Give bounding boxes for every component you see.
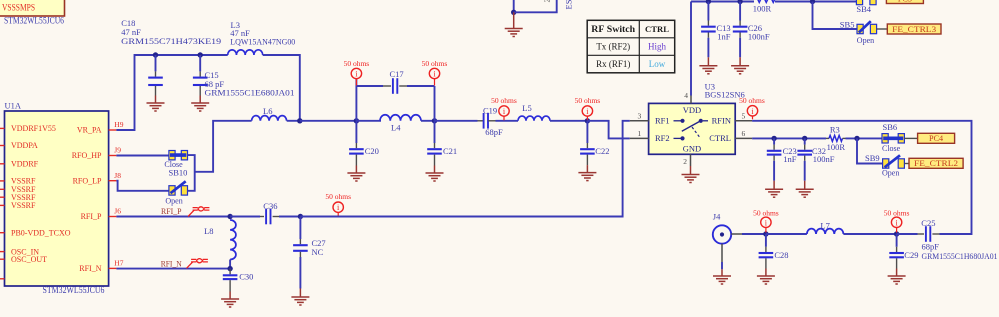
svg-text:NC: NC [312, 247, 324, 257]
C19 left lead [478, 120, 484, 122]
svg-text:Close: Close [882, 144, 901, 153]
U1A left pin stub y=128.4 [0, 127, 5, 129]
wire VDD rail left [691, 1, 754, 3]
svg-text:1nF: 1nF [717, 32, 731, 42]
U3 switch contact RFIN [699, 119, 703, 123]
capacitor C32 [804, 138, 806, 144]
svg-text:J9: J9 [114, 146, 121, 155]
svg-text:RFIN: RFIN [712, 116, 731, 126]
wire SB10 to L6 [195, 121, 252, 172]
wire RFI_P to C36 [230, 216, 260, 218]
svg-text:VSSRF: VSSRF [11, 201, 36, 210]
wire C21 node to C19 [435, 120, 478, 122]
svg-text:50 ohms: 50 ohms [422, 59, 448, 68]
svg-text:50 ohms: 50 ohms [753, 208, 779, 217]
svg-text:C20: C20 [365, 146, 379, 156]
C36 left lead [260, 216, 264, 218]
junction SB5 branch [810, 0, 815, 4]
wire R3 to SB6 [846, 137, 883, 139]
svg-text:GRM155C71H473KE19: GRM155C71H473KE19 [121, 36, 221, 46]
inductor L6 [252, 116, 287, 121]
svg-text:RFI_N: RFI_N [161, 258, 182, 268]
svg-text:100R: 100R [827, 142, 846, 152]
U1A pin stub H7 [109, 267, 117, 269]
ic U1A body [5, 111, 109, 286]
wire C17 branch right [407, 85, 435, 87]
wire C36 to C27 node [279, 216, 300, 218]
inductor L5 [518, 116, 550, 121]
U3 pin 4 stub [690, 96, 692, 104]
impedance marker 50 ohms (C29) [896, 227, 898, 232]
capacitor C22 [586, 121, 588, 143]
SB10 open lever [171, 181, 186, 193]
ic U3 body [649, 103, 736, 154]
svg-text:GRM1555C1E680JA01: GRM1555C1E680JA01 [205, 87, 295, 97]
capacitor C29 [896, 234, 898, 247]
capacitor C19 [484, 113, 488, 129]
junction TX node [297, 118, 302, 123]
U3 pin 3 stub [630, 120, 649, 122]
U3 switch contact RF1 [674, 120, 681, 122]
junction C30 node [227, 266, 232, 271]
wire C17 left riser [355, 78, 357, 121]
inductor L4 [380, 115, 421, 121]
solder bridge SB10 closed pads [169, 151, 175, 160]
svg-text:L7: L7 [820, 220, 829, 230]
svg-text:L4: L4 [391, 123, 401, 133]
U1A left pin stub y=232.7 [0, 232, 5, 234]
capacitor C21 [434, 121, 436, 143]
svg-text:J4: J4 [713, 211, 721, 221]
wire C20 node to L4 [356, 120, 381, 122]
svg-text:VSSSMPS: VSSSMPS [2, 4, 35, 14]
svg-text:SB10: SB10 [169, 167, 188, 177]
wire C17 branch left [356, 85, 383, 87]
capacitor C36 [266, 209, 270, 225]
wire SB9 drop [857, 138, 883, 163]
wire J4 to C28 node [742, 233, 766, 235]
solder bridge SB4 pads [856, 0, 862, 5]
SB9 open lever [885, 155, 900, 167]
svg-text:J6: J6 [114, 207, 121, 216]
wire VR_PA to top rail [116, 55, 155, 130]
differential pair mark (RFI_N) [187, 259, 208, 269]
svg-text:4: 4 [684, 91, 688, 100]
J4 right lead [731, 233, 742, 235]
C17 right lead [399, 85, 407, 87]
svg-text:STM32WL55JCU6: STM32WL55JCU6 [43, 285, 105, 295]
SB5 open lever [859, 21, 871, 32]
U1A pin stub J8 [109, 180, 117, 182]
impedance marker 50 ohms (C22 node) [586, 116, 588, 120]
capacitor C27 [299, 217, 301, 240]
svg-text:L5: L5 [522, 103, 531, 113]
svg-text:1nF: 1nF [783, 154, 797, 164]
U3 switch arm [682, 121, 701, 131]
svg-text:2: 2 [543, 0, 552, 3]
junction SB9 branch [854, 136, 859, 141]
svg-text:C25: C25 [921, 218, 935, 228]
junction C20 node [354, 118, 359, 123]
svg-text:SB5: SB5 [840, 20, 855, 30]
R3 left lead [826, 137, 829, 139]
wire VDD rail right [775, 1, 856, 3]
wire RFIN to antenna line [752, 121, 971, 234]
svg-text:C21: C21 [443, 146, 457, 156]
wire RFI_P to RF1 [300, 121, 629, 217]
U1A left pin stub y=205.4 [0, 204, 5, 206]
svg-text:VR_PA: VR_PA [77, 126, 102, 135]
node C15 [198, 52, 203, 57]
ground (J4) [713, 276, 731, 284]
svg-text:C28: C28 [774, 250, 788, 260]
capacitor C17 [393, 78, 397, 94]
SB10 closed bar [170, 153, 186, 157]
wire SB9 to FE_CTRL2 [904, 163, 909, 165]
U3 pin 2 ground stub [690, 166, 692, 175]
impedance marker 50 ohms (C17 right) [434, 79, 436, 86]
junction C13 [706, 0, 711, 4]
impedance marker 50 ohms (C28) [765, 227, 767, 232]
svg-text:CTRL: CTRL [645, 24, 669, 34]
svg-text:SB4: SB4 [856, 4, 871, 14]
svg-text:50 ohms: 50 ohms [575, 96, 601, 105]
svg-text:Low: Low [649, 59, 666, 69]
svg-text:C36: C36 [263, 201, 277, 211]
wire RFI_P [116, 216, 230, 218]
svg-text:STM32WL55JCU6: STM32WL55JCU6 [4, 16, 64, 26]
wire L5 to C22 node [550, 120, 587, 122]
inductor L7 [807, 229, 844, 234]
svg-text:H9: H9 [114, 120, 123, 129]
U3 pin 5 stub [735, 120, 752, 122]
impedance marker 50 ohms (C17 left) [355, 79, 357, 86]
wire RFO_LP to SB10 [116, 181, 168, 191]
svg-text:100R: 100R [753, 3, 772, 13]
svg-text:LQW15AN47NG00: LQW15AN47NG00 [230, 37, 295, 47]
C25 left lead [918, 233, 925, 235]
U1A left pin stub y=278.8 [0, 278, 5, 280]
capacitor C25 [926, 226, 930, 242]
svg-text:FE_CTRL3: FE_CTRL3 [892, 25, 936, 34]
J4 ground lead [721, 244, 723, 262]
U3 pin 2 stub [690, 154, 692, 166]
svg-text:H7: H7 [114, 259, 123, 268]
svg-text:1: 1 [638, 129, 642, 138]
inductor L3 [228, 50, 263, 55]
U3 switch contact RF2 [674, 137, 681, 139]
wire RFI_N [116, 268, 230, 270]
svg-text:Rx (RF1): Rx (RF1) [596, 59, 630, 69]
svg-text:OSC_OUT: OSC_OUT [11, 255, 47, 264]
svg-text:L6: L6 [263, 106, 272, 116]
junction C29 [894, 231, 899, 236]
wire SB5 drop [813, 2, 858, 30]
ic U1B fragment (VSSSMPS) [0, 0, 65, 16]
junction C23 [771, 136, 776, 141]
U1A left pin stub y=145.5 [0, 145, 5, 147]
connector J4 [713, 225, 731, 243]
wire TX node to C20 node [300, 120, 357, 122]
svg-text:GND: GND [683, 144, 701, 154]
svg-text:RFI_P: RFI_P [81, 212, 102, 221]
junction C32 [802, 136, 807, 141]
U1A left pin stub y=189.3 [0, 188, 5, 190]
U1A left pin stub y=180.9 [0, 180, 5, 182]
impedance marker 50 ohms (RFI_P) [337, 212, 339, 216]
svg-text:VDDRF: VDDRF [11, 160, 39, 169]
capacitor C20 [355, 121, 357, 143]
C19 right lead [488, 120, 495, 122]
svg-text:C17: C17 [390, 69, 404, 79]
wire pin4 to VDD rail [690, 2, 692, 96]
svg-text:PC5: PC5 [898, 0, 912, 3]
svg-text:R3: R3 [830, 125, 840, 135]
wire L8 bottom lead [229, 260, 231, 269]
U3 switch dashed link [692, 127, 701, 138]
svg-text:50 ohms: 50 ohms [344, 59, 370, 68]
wire C29 node to C25 [897, 233, 918, 235]
svg-text:RF1: RF1 [655, 116, 670, 126]
junction C26 [737, 0, 742, 4]
wire SB6 to PC4 [904, 137, 917, 139]
junction C22 node [585, 118, 590, 123]
C36 right lead [273, 216, 279, 218]
differential pair mark (RFI_P) [188, 207, 209, 217]
U3 pin 1 stub [630, 137, 649, 139]
svg-text:Open: Open [165, 197, 182, 206]
wire CTRL [752, 137, 826, 139]
svg-text:Open: Open [857, 36, 874, 45]
wire L3 to TX node [263, 55, 300, 121]
solder bridge SB10 open pads [169, 186, 175, 195]
svg-text:RFO_HP: RFO_HP [72, 151, 102, 160]
impedance marker 50 ohms (C19) [503, 116, 505, 120]
svg-text:C29: C29 [904, 250, 918, 260]
svg-text:PC4: PC4 [929, 134, 943, 143]
svg-text:Open: Open [882, 168, 899, 177]
capacitor C30 [229, 268, 231, 271]
junction C27 node [298, 214, 303, 219]
wire L4 to C21 node [421, 120, 435, 122]
svg-text:U1A: U1A [5, 101, 22, 111]
wire SB10 outputs join [188, 155, 195, 191]
svg-text:SB6: SB6 [883, 122, 898, 132]
svg-text:PB0-VDD_TCXO: PB0-VDD_TCXO [11, 228, 71, 237]
ground (U3 GND) [682, 175, 700, 183]
U1A left pin stub y=163.8 [0, 163, 5, 165]
wire L7 to C29 node [843, 233, 896, 235]
R3 right lead [843, 137, 846, 139]
svg-text:RFI_N: RFI_N [79, 264, 101, 273]
ground (ESD) [505, 29, 523, 37]
capacitor C28 [765, 234, 767, 247]
svg-text:50 ohms: 50 ohms [739, 96, 765, 105]
port PC5 [886, 0, 923, 4]
SB6 closed bar [883, 137, 903, 141]
svg-text:50 ohms: 50 ohms [884, 208, 910, 217]
junction C21 node [432, 118, 437, 123]
U1A left pin stub y=197.2 [0, 196, 5, 198]
wire top rail [156, 54, 228, 56]
U1A pin stub J9 [109, 155, 117, 157]
svg-text:RF2: RF2 [655, 133, 670, 143]
capacitor C23 [773, 138, 775, 144]
svg-text:RFI_P: RFI_P [161, 206, 182, 216]
svg-text:VDD: VDD [683, 105, 701, 115]
svg-text:CTRL: CTRL [709, 133, 731, 143]
U1A left pin stub y=251.6 [0, 251, 5, 253]
svg-text:68pF: 68pF [485, 127, 503, 137]
solder bridge SB5 pads [857, 24, 863, 33]
port FE_CTRL3 [887, 24, 941, 34]
svg-text:50 ohms: 50 ohms [325, 192, 351, 201]
U1A pin stub H9 [109, 129, 117, 131]
svg-text:6: 6 [742, 129, 746, 138]
svg-text:3: 3 [638, 111, 642, 120]
U1A pin stub J6 [109, 216, 117, 218]
svg-text:GRM1555C1H680JA01: GRM1555C1H680JA01 [922, 251, 998, 261]
wire C19 to L5 [496, 120, 519, 122]
svg-text:RF Switch: RF Switch [591, 24, 635, 35]
C17 left lead [383, 85, 391, 87]
wire ESD loop [514, 0, 557, 12]
inductor L8 [230, 220, 236, 260]
ESD ground stub [513, 12, 515, 28]
C25 right lead [932, 233, 939, 235]
svg-text:L8: L8 [204, 226, 213, 236]
capacitor C26 [739, 2, 741, 21]
resistor R3 [829, 135, 843, 141]
svg-text:2: 2 [683, 157, 687, 166]
svg-text:5: 5 [742, 111, 746, 120]
port FE_CTRL2 [909, 158, 963, 168]
port PC4 [918, 133, 955, 143]
node C18 [153, 52, 158, 57]
wire ESD left [513, 0, 515, 12]
wire C17 right riser [434, 86, 436, 121]
solder bridge SB6 pads [882, 134, 888, 143]
wire TX to RF2 [587, 121, 629, 139]
svg-text:FE_CTRL2: FE_CTRL2 [914, 159, 958, 168]
capacitor C13 [707, 2, 709, 21]
svg-text:100nF: 100nF [813, 154, 835, 164]
svg-text:C30: C30 [239, 271, 253, 281]
svg-text:100nF: 100nF [748, 32, 770, 42]
svg-text:J8: J8 [114, 171, 121, 180]
capacitor C15 [199, 55, 201, 71]
svg-text:VDDRF1V55: VDDRF1V55 [11, 124, 56, 133]
junction ESD node [511, 10, 516, 15]
resistor 100R (top, partial) [754, 0, 775, 2]
svg-text:C22: C22 [595, 146, 609, 156]
solder bridge SB9 pads [883, 159, 889, 168]
wire L6 to node [287, 120, 300, 122]
svg-text:High: High [648, 42, 667, 52]
svg-text:50 ohms: 50 ohms [491, 96, 517, 105]
table frame [587, 20, 675, 73]
wire C28 to L7 [766, 233, 807, 235]
U1A left pin stub y=259.2 [0, 258, 5, 260]
svg-text:Tx (RF2): Tx (RF2) [596, 42, 630, 52]
U3 pin 6 stub [735, 137, 752, 139]
svg-text:SB9: SB9 [865, 153, 880, 163]
impedance marker 50 ohms (RFIN) [752, 116, 754, 120]
capacitor C18 [155, 55, 157, 71]
svg-text:ES: ES [564, 0, 574, 10]
junction C28 [763, 231, 768, 236]
svg-text:C19: C19 [483, 105, 497, 115]
junction L8 top [227, 214, 232, 219]
wire RFO_HP to SB10 [116, 155, 168, 157]
wire SB5 to FE_CTRL3 [877, 28, 888, 30]
svg-text:RFO_LP: RFO_LP [73, 176, 102, 185]
svg-text:VDDPA: VDDPA [11, 141, 38, 150]
